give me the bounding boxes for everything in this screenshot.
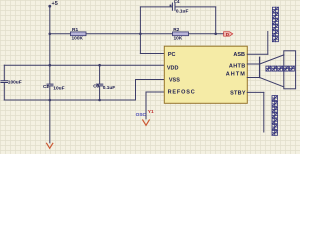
svg-text:STBY: STBY: [230, 91, 246, 97]
svg-text:Y1: Y1: [148, 109, 154, 115]
buzzer B1 box: [284, 51, 296, 89]
wire ground row: [4, 99, 135, 101]
node VDD x100: [98, 64, 101, 67]
capacitor C4: [170, 0, 189, 14]
svg-text:C3: C3: [93, 83, 99, 88]
svg-text:0.1uF: 0.1uF: [103, 85, 116, 91]
capacitor C3: [93, 65, 115, 100]
wire AHTM lead: [247, 77, 259, 79]
svg-text:100uF: 100uF: [8, 79, 22, 85]
resistor R2: [173, 27, 189, 42]
svg-text:VSS: VSS: [169, 77, 180, 83]
wire REFOSC vertical: [145, 92, 147, 119]
wire ASB vertical: [267, 32, 269, 55]
node junction R1 row x50: [49, 33, 52, 36]
svg-text:VDD: VDD: [167, 65, 179, 71]
svg-text:OSC: OSC: [136, 112, 147, 118]
wire +5 vertical down to C2: [49, 6, 51, 84]
sheet background: [0, 0, 300, 154]
svg-text:C4: C4: [174, 0, 180, 4]
wire R2 to port D: [189, 33, 224, 35]
wire STBY vertical: [263, 92, 265, 132]
wire top row left: [140, 6, 172, 8]
wire AHTB lead: [247, 63, 259, 65]
node gnd x100: [98, 99, 101, 102]
wire PC pin vertical: [139, 34, 141, 54]
svg-text:R1: R1: [72, 27, 78, 33]
svg-text:0.1uF: 0.1uF: [176, 8, 189, 14]
svg-text:10K: 10K: [174, 35, 183, 41]
svg-text:10uF: 10uF: [53, 85, 64, 91]
wire R1 row left: [50, 33, 71, 35]
wire top row right: [176, 6, 216, 8]
svg-text:+5: +5: [52, 1, 58, 7]
wire ASB horizontal: [247, 53, 267, 55]
node gnd x50: [49, 99, 52, 102]
wire VDD row: [4, 64, 164, 66]
annotation ASB output column: [272, 7, 278, 42]
wire VSS horizontal: [136, 79, 165, 81]
svg-text:AHTB: AHTB: [229, 63, 246, 69]
ground G1: [47, 143, 53, 148]
svg-text:C2: C2: [43, 84, 49, 89]
svg-text:R2: R2: [173, 27, 179, 33]
power +5: [48, 1, 57, 8]
capacitor C2: [43, 84, 65, 143]
buzzer B1 plate: [259, 57, 261, 77]
capacitor C1: [1, 65, 22, 100]
wire vertical down from top row: [215, 7, 217, 34]
svg-text:PC: PC: [168, 52, 176, 58]
svg-text:AHTM: AHTM: [226, 71, 246, 77]
IC U1: [164, 46, 247, 103]
node D junction x215: [214, 33, 217, 36]
wire PC pin horizontal: [140, 53, 164, 55]
resistor R1: [71, 27, 87, 42]
svg-text:100K: 100K: [72, 35, 84, 41]
wire VSS vertical: [135, 80, 137, 101]
svg-text:ASB: ASB: [233, 52, 245, 58]
ground G2: [143, 120, 150, 125]
annotation STBY column: [272, 96, 278, 136]
wire STBY horizontal: [247, 91, 263, 93]
node VDD x50: [49, 64, 52, 67]
buzzer B1 horn diagonals: [260, 55, 284, 87]
wire REFOSC horizontal: [146, 91, 164, 93]
buzzer annotation 压电蜂鸣器: [266, 66, 294, 71]
node center junction x140: [139, 33, 142, 36]
wire vertical up to top row: [139, 7, 141, 34]
port D: [224, 32, 233, 37]
wire R1 to R2: [86, 33, 173, 35]
svg-text:REFOSC: REFOSC: [168, 90, 196, 96]
